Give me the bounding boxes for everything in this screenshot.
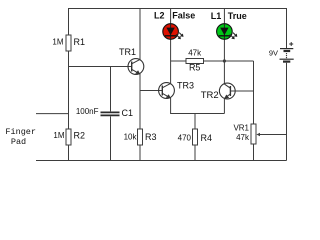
- svg-text:TR2: TR2: [201, 90, 219, 101]
- svg-text:R1: R1: [74, 37, 86, 47]
- wire top rail: [69, 9, 287, 49]
- wire R3 to bottom rail: [139, 145, 141, 161]
- svg-text:R4: R4: [201, 133, 213, 143]
- LED L1 (green): [211, 11, 247, 39]
- LED L2 (red): [154, 11, 195, 40]
- wire TR1 emitter down to R3: [139, 73, 141, 129]
- svg-text:1M: 1M: [52, 38, 63, 47]
- svg-text:9V: 9V: [269, 49, 278, 58]
- svg-text:L1: L1: [211, 11, 222, 21]
- wire VR1 to bottom rail: [253, 144, 255, 161]
- wire R4 drop: [194, 114, 196, 130]
- svg-text:R3: R3: [145, 132, 157, 142]
- wire finger pad top terminal: [36, 113, 69, 115]
- resistor R3: [124, 129, 157, 145]
- resistor R1: [52, 35, 85, 51]
- transistor TR3: [159, 81, 194, 99]
- battery 9V: [269, 42, 294, 62]
- resistor R2: [53, 129, 85, 145]
- wire TR1 base: [69, 66, 132, 68]
- wire bottom rail: [36, 160, 287, 162]
- wire L1 rail (top rail to TR2 collector): [223, 9, 225, 85]
- svg-text:47k: 47k: [236, 133, 250, 142]
- node Finger Pad label: [5, 127, 36, 147]
- wire TR2 emitter down: [223, 98, 225, 113]
- wire L2 rail (top rail to TR3 collector): [170, 9, 172, 84]
- transistor TR2 (mirrored): [201, 83, 235, 101]
- wire R4 to bottom rail: [194, 145, 196, 161]
- wire C1 upper: [110, 67, 112, 112]
- resistor R5: [171, 49, 254, 73]
- svg-text:Pad: Pad: [11, 137, 26, 147]
- svg-text:L2: L2: [154, 11, 165, 21]
- svg-text:1M: 1M: [53, 131, 64, 140]
- wire C1 lower: [110, 116, 112, 160]
- svg-text:100nF: 100nF: [76, 107, 99, 116]
- wire R5 to VR1: [253, 61, 255, 124]
- wire battery negative rail: [286, 63, 288, 161]
- svg-text:C1: C1: [122, 108, 134, 118]
- capacitor C1: [76, 107, 133, 118]
- svg-text:TR3: TR3: [177, 81, 194, 91]
- wire R2 to bottom rail: [68, 145, 70, 161]
- svg-text:VR1: VR1: [233, 123, 249, 132]
- svg-text:10k: 10k: [124, 133, 138, 142]
- junction node R5/L1 rail: [223, 59, 226, 62]
- svg-text:Finger: Finger: [5, 127, 36, 137]
- svg-text:R5: R5: [189, 63, 201, 73]
- svg-text:R2: R2: [74, 131, 86, 141]
- wire TR1 collector to top rail: [139, 9, 141, 60]
- svg-text:True: True: [228, 11, 247, 21]
- wire common emitter (TR3/TR2 emitters): [171, 97, 225, 113]
- resistor R4: [178, 129, 212, 145]
- wire TR2 base: [230, 90, 253, 92]
- transistor TR1: [119, 47, 144, 74]
- svg-text:False: False: [172, 11, 195, 21]
- wire left rail: [68, 51, 70, 129]
- svg-text:470: 470: [178, 134, 192, 143]
- potentiometer VR1: [233, 123, 286, 144]
- wire TR3 base: [140, 90, 162, 92]
- svg-text:TR1: TR1: [119, 47, 136, 57]
- svg-text:47k: 47k: [188, 49, 202, 58]
